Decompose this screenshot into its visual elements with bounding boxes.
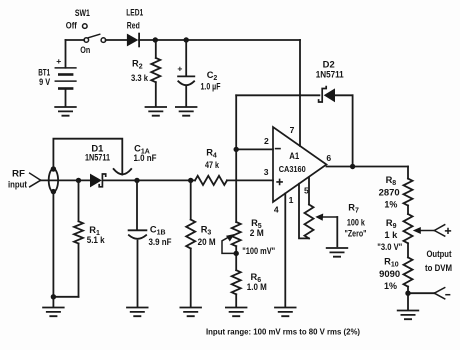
svg-text:20 M: 20 M <box>198 237 216 247</box>
svg-text:R3: R3 <box>201 225 212 237</box>
R7 wiper arm <box>315 214 337 247</box>
svg-text:"Zero": "Zero" <box>345 229 367 239</box>
capacitor C1A curved plate <box>114 143 157 174</box>
svg-text:3: 3 <box>264 167 269 177</box>
ground R2 <box>146 107 167 116</box>
pin 2 wire <box>236 148 273 150</box>
ground C2 <box>176 107 197 116</box>
svg-text:1%: 1% <box>384 199 398 209</box>
resistor R2 <box>131 40 160 106</box>
output + terminal arrow <box>434 225 450 236</box>
svg-text:3.9 nF: 3.9 nF <box>149 237 172 247</box>
svg-text:100 k: 100 k <box>347 217 366 227</box>
wire output pin6 <box>327 166 409 168</box>
wire probe top to C1A <box>53 139 122 175</box>
wire LED1 to pin7 corner <box>139 39 300 41</box>
node V+ at R2 <box>153 37 158 42</box>
svg-text:R4: R4 <box>206 148 217 160</box>
svg-text:R7: R7 <box>348 203 359 215</box>
svg-text:R10: R10 <box>384 257 399 269</box>
svg-text:1.0 µF: 1.0 µF <box>201 81 221 91</box>
svg-text:1%: 1% <box>384 281 398 291</box>
node R5/R6 junction <box>234 251 239 256</box>
op-amp A1 CA3160 <box>273 127 327 202</box>
R5 wiper arm <box>222 234 236 253</box>
svg-text:3.3 k: 3.3 k <box>131 73 149 83</box>
wire corner down to R8 <box>407 167 409 179</box>
node R10/output- <box>405 291 410 296</box>
svg-text:7: 7 <box>290 125 295 135</box>
wire node to ground <box>407 293 409 310</box>
diode D2 1N5711 <box>316 59 344 102</box>
ground pin4 <box>275 308 296 317</box>
svg-text:"3.0 V": "3.0 V" <box>377 242 402 252</box>
ground R7 wiper <box>327 248 348 257</box>
R9 wiper arm <box>413 227 435 234</box>
pin 5 wire to R7 top <box>308 177 310 204</box>
wire pin2 node down to R5 (crosses main wire) <box>235 149 237 222</box>
svg-text:D2: D2 <box>323 59 335 69</box>
svg-text:Red: Red <box>127 20 140 30</box>
probe jack ellipse <box>49 169 58 192</box>
svg-text:input: input <box>8 179 27 189</box>
wire D2 anode to output node <box>335 94 353 96</box>
ground output <box>398 311 419 320</box>
svg-text:+: + <box>177 64 182 74</box>
svg-text:4: 4 <box>274 205 279 215</box>
ground R6 <box>226 308 247 317</box>
svg-text:Off: Off <box>66 21 78 31</box>
ground battery <box>55 107 76 116</box>
diode D1 1N5711 <box>85 143 110 187</box>
node R1 tap <box>76 178 81 183</box>
resistor R8 <box>379 175 413 214</box>
ground input shield <box>43 308 64 317</box>
resistor R10 <box>379 257 412 294</box>
LED1 Red <box>126 7 143 46</box>
svg-text:Input range: 100 mV rms to 80: Input range: 100 mV rms to 80 V rms (2%) <box>206 328 360 337</box>
pin 1 wire to R7 bottom <box>299 184 309 239</box>
svg-text:Output: Output <box>427 249 452 259</box>
svg-text:1N5711: 1N5711 <box>85 153 110 163</box>
svg-text:1N5711: 1N5711 <box>316 70 344 80</box>
wire D2 down to output <box>352 95 354 166</box>
svg-text:+: + <box>56 56 61 66</box>
resistor R4 <box>195 148 227 185</box>
wire R4 to pin 3 <box>227 179 273 181</box>
potentiometer R9 <box>377 214 412 257</box>
svg-text:2 M: 2 M <box>250 228 264 238</box>
resistor R3 <box>186 180 216 306</box>
svg-text:On: On <box>80 45 90 55</box>
wire node to ground <box>52 297 54 307</box>
svg-text:BT1: BT1 <box>38 67 50 77</box>
svg-text:"100 mV": "100 mV" <box>242 246 275 256</box>
wire input to D1 <box>41 179 90 181</box>
resistor R1 <box>74 180 105 296</box>
output - terminal arrow <box>434 288 449 299</box>
svg-text:R8: R8 <box>386 175 397 187</box>
svg-text:CA3160: CA3160 <box>279 165 307 174</box>
potentiometer R5 <box>232 218 276 270</box>
capacitor C2 <box>177 40 220 106</box>
wire probe shield down <box>52 192 54 297</box>
svg-text:R2: R2 <box>132 59 143 71</box>
svg-text:9090: 9090 <box>379 269 400 279</box>
svg-text:LED1: LED1 <box>126 7 143 17</box>
resistor R6 <box>232 270 267 307</box>
node output/D2 <box>350 164 355 169</box>
pin 7 <box>299 40 301 146</box>
wire to output - terminal <box>408 292 434 294</box>
battery BT1 <box>38 40 76 106</box>
svg-text:A1: A1 <box>289 151 299 161</box>
wire R1 bottom to shield <box>53 296 78 298</box>
node V+ at C2 <box>184 37 189 42</box>
potentiometer R7 <box>305 203 367 239</box>
ground R3 <box>180 308 201 317</box>
probe shield contact bottom <box>51 189 56 194</box>
node C1B tap <box>134 178 139 183</box>
svg-text:1 k: 1 k <box>384 230 398 240</box>
svg-text:1: 1 <box>289 195 294 205</box>
probe tip contact top <box>51 166 56 171</box>
wire to D2 cathode <box>236 94 319 96</box>
wire battery to switch <box>66 39 85 41</box>
svg-text:5.1 k: 5.1 k <box>87 235 106 245</box>
svg-text:1.0 nF: 1.0 nF <box>134 153 157 163</box>
pin 4 wire to ground <box>284 194 286 307</box>
svg-text:to DVM: to DVM <box>425 263 452 273</box>
svg-text:1.0 M: 1.0 M <box>247 282 267 292</box>
svg-text:2: 2 <box>264 136 269 146</box>
svg-text:R9: R9 <box>386 218 397 230</box>
RF input arrow <box>30 173 41 187</box>
ground C1B <box>127 308 148 317</box>
svg-text:9 V: 9 V <box>39 77 51 87</box>
svg-text:SW1: SW1 <box>75 8 90 18</box>
wire switch to LED1 <box>106 39 127 41</box>
svg-text:C1B: C1B <box>150 225 166 237</box>
svg-text:6: 6 <box>326 153 331 163</box>
svg-text:2870: 2870 <box>379 187 400 197</box>
capacitor C1B <box>129 180 172 306</box>
wire D1 to R4 <box>103 179 195 181</box>
node R3 tap <box>188 178 193 183</box>
svg-text:RF: RF <box>12 168 25 178</box>
wire pin2 node up to D2 <box>235 95 237 149</box>
node pin2/R5/D2 <box>234 147 239 152</box>
node shield/R1 <box>51 294 56 299</box>
svg-text:47 k: 47 k <box>205 160 220 170</box>
switch SW1 <box>66 8 106 55</box>
